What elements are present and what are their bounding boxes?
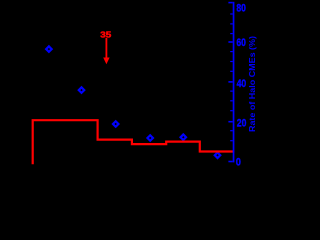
svg-text:Rate of Halo CMEs (%): Rate of Halo CMEs (%) [248, 36, 257, 132]
svg-text:60: 60 [236, 37, 246, 49]
svg-text:20: 20 [237, 118, 247, 130]
svg-text:80: 80 [236, 2, 246, 14]
svg-text:0: 0 [236, 157, 241, 169]
svg-text:40: 40 [237, 78, 247, 90]
